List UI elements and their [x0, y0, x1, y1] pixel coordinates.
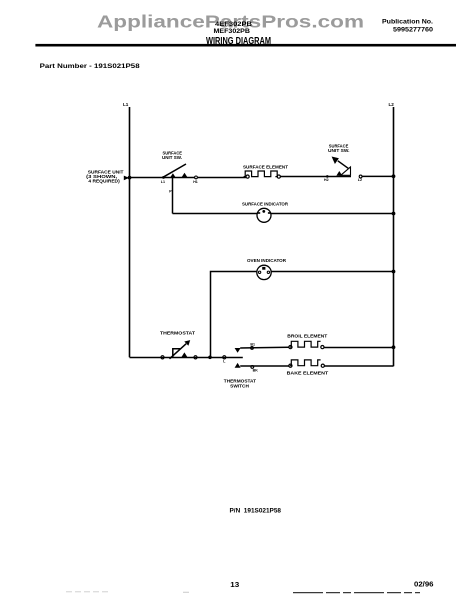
svg-text:Publication No.: Publication No. — [382, 19, 433, 26]
terminal H2 — [324, 175, 329, 182]
node junction broil L2 bus — [392, 345, 396, 349]
label BAKE ELEMENT — [287, 371, 329, 376]
svg-text:13: 13 — [230, 580, 239, 589]
lamp oven indicator — [257, 265, 271, 279]
watermark AppliancePartsPros.com — [97, 12, 364, 32]
label SURFACE INDICATOR — [242, 202, 289, 207]
svg-text:UNIT SW.: UNIT SW. — [162, 155, 182, 160]
wire row3 right — [271, 271, 393, 273]
svg-text:02/96: 02/96 — [414, 580, 434, 589]
node L1 label — [123, 102, 129, 107]
svg-text:BAKE ELEMENT: BAKE ELEMENT — [287, 371, 329, 376]
label date 02/96 — [414, 580, 434, 589]
svg-text:L1: L1 — [123, 102, 129, 107]
terminal B1 — [250, 342, 255, 349]
lamp surface indicator — [257, 208, 271, 222]
label OVEN INDICATOR — [247, 258, 287, 263]
wire row1 left segment — [130, 177, 195, 179]
wire element to switch2 — [280, 176, 351, 178]
svg-text:4 REQUIRED): 4 REQUIRED) — [88, 178, 120, 183]
svg-text:L2: L2 — [358, 178, 362, 182]
svg-text:THERMOSTAT: THERMOSTAT — [160, 331, 195, 336]
label page number 13 — [230, 580, 239, 589]
terminal L — [223, 356, 227, 364]
contact triangle switch2 — [336, 171, 342, 176]
switch surface unit sw 2 wedge — [341, 167, 351, 175]
wire row2 left — [173, 213, 258, 215]
resistor bake element — [289, 360, 325, 367]
label 5995277760 — [393, 27, 433, 34]
svg-text:OVEN INDICATOR: OVEN INDICATOR — [247, 258, 287, 263]
terminal thermostat mid — [194, 356, 197, 359]
node junction oven drop — [208, 356, 212, 360]
terminal thermostat left — [161, 356, 164, 359]
svg-text:5995277760: 5995277760 — [393, 27, 433, 34]
wire P drop — [169, 178, 172, 214]
label P/N 191S021P58 — [230, 508, 282, 515]
node junction row1 L2 bus — [392, 174, 396, 178]
resistor surface element — [244, 171, 281, 178]
wire row2 right — [271, 213, 394, 215]
contact triangle H1 side — [182, 173, 188, 178]
node junction row3 L2 bus — [392, 270, 396, 274]
wire row1 to element — [198, 177, 246, 179]
contact triangle bake (up) — [235, 363, 241, 368]
contact triangle P (pilot tap) — [170, 173, 176, 178]
wire broil row — [240, 346, 289, 349]
header rule — [35, 44, 456, 47]
label WIRING DIAGRAM — [206, 36, 271, 47]
svg-text:SURFACE INDICATOR: SURFACE INDICATOR — [242, 202, 289, 207]
wire L1 bus — [129, 107, 131, 357]
label model 4EF302PB — [215, 21, 252, 28]
label SURFACE UNIT SW. (left) — [162, 150, 182, 160]
svg-text:B1: B1 — [250, 342, 255, 346]
node L2 label — [389, 102, 395, 107]
svg-text:SWITCH: SWITCH — [230, 383, 249, 388]
contact triangle thermostat — [181, 352, 187, 357]
svg-text:SURFACE ELEMENT: SURFACE ELEMENT — [243, 164, 288, 169]
label model MEF302PB — [214, 28, 251, 35]
svg-text:H2: H2 — [324, 178, 329, 182]
svg-text:BROIL ELEMENT: BROIL ELEMENT — [287, 334, 327, 339]
switch surface unit sw 1 arm — [164, 164, 186, 177]
resistor broil element — [289, 341, 324, 348]
contact triangle broil (down) — [235, 348, 241, 353]
svg-text:Part Number - 191S021P58: Part Number - 191S021P58 — [40, 63, 140, 70]
label SURFACE UNIT (3 SHOWN, 4 REQUIRED) — [86, 170, 124, 184]
label THERMOSTAT — [160, 331, 195, 336]
thermostat arm with arrowhead — [170, 340, 191, 359]
wire bake to bus — [324, 365, 393, 367]
scan artifact dashes bottom — [66, 591, 420, 594]
wire broil to bus — [324, 347, 394, 349]
switch surface unit sw 1 pivot terminal L1 — [161, 176, 165, 184]
svg-text:BK: BK — [253, 368, 259, 372]
label Part Number - 191S021P58 — [40, 63, 140, 70]
svg-text:MEF302PB: MEF302PB — [214, 28, 251, 35]
wire L2 bus — [393, 107, 395, 366]
svg-text:P/N 191S021P58: P/N 191S021P58 — [230, 508, 282, 515]
wire switch2 to L2 bus — [362, 175, 393, 177]
terminal L2 of switch2 — [358, 175, 362, 182]
label THERMOSTAT SWITCH — [224, 379, 257, 389]
label Publication No. — [382, 19, 433, 26]
thermostat bracket — [173, 349, 181, 358]
label BROIL ELEMENT — [287, 334, 327, 339]
terminal H1 — [193, 176, 198, 184]
wire oven indicator drop — [211, 272, 257, 358]
svg-text:L2: L2 — [389, 102, 395, 107]
wire bake row — [240, 365, 289, 367]
svg-text:L1: L1 — [161, 180, 165, 184]
wire row4 main — [130, 357, 243, 359]
terminal BK — [251, 366, 258, 373]
label SURFACE UNIT SW. (right) — [328, 143, 350, 153]
node surface unit junction arrow — [124, 176, 132, 181]
switch surface unit sw 2 arm with arrowhead — [332, 157, 349, 169]
svg-text:L: L — [223, 359, 226, 363]
node junction row2 L2 bus — [392, 212, 396, 216]
svg-text:UNIT SW.: UNIT SW. — [328, 148, 350, 153]
label SURFACE ELEMENT — [243, 164, 288, 169]
svg-text:H1: H1 — [193, 180, 198, 184]
